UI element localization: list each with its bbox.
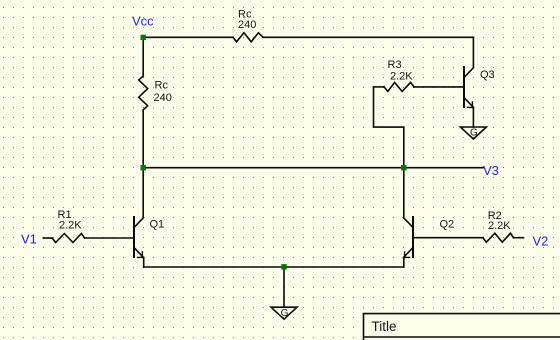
wire R2 right lead: [514, 237, 524, 239]
wire Vcc top left segment: [143, 36, 233, 38]
wire R3 to Q3 base: [414, 86, 464, 88]
svg-text:240: 240: [238, 19, 256, 31]
ground G bottom center: [271, 307, 297, 319]
svg-text:Q1: Q1: [150, 218, 165, 230]
resistor Rc (top) zigzag: [233, 33, 263, 42]
wire R3 left lead: [374, 86, 385, 88]
wire mid horizontal V3 net: [143, 167, 483, 169]
node junction left rail / V3 net: [141, 165, 146, 170]
title block: [364, 314, 560, 340]
resistor R1 zigzag: [52, 234, 85, 243]
svg-text:Q2: Q2: [440, 218, 455, 230]
node junction V3 net right: [401, 165, 406, 170]
transistor Q3: [464, 67, 474, 108]
svg-text:2.2K: 2.2K: [390, 71, 413, 83]
svg-text:2.2K: 2.2K: [488, 220, 511, 232]
svg-text:G: G: [281, 308, 289, 319]
svg-text:Rc: Rc: [155, 79, 169, 91]
wire Q2 emitter to bottom rail: [403, 258, 405, 268]
svg-text:V3: V3: [483, 163, 499, 178]
wire Q3 emitter to ground: [472, 108, 474, 128]
svg-text:240: 240: [154, 92, 172, 104]
wire Q3 collector drop: [472, 37, 474, 67]
resistor R2 zigzag: [483, 233, 514, 242]
wire bottom rail: [144, 266, 404, 268]
node junction Vcc: [141, 35, 146, 40]
resistor Rc (left vertical) zigzag: [139, 76, 148, 110]
svg-text:Title: Title: [372, 319, 397, 334]
svg-text:Q3: Q3: [480, 69, 495, 81]
svg-text:G: G: [470, 128, 478, 139]
resistor R3 zigzag: [384, 82, 414, 91]
svg-text:V2: V2: [533, 234, 549, 249]
svg-text:2.2K: 2.2K: [59, 220, 82, 232]
wire Q2 base to R2: [413, 237, 483, 239]
transistor Q1: [134, 217, 144, 258]
wire R1 to Q1 base: [85, 237, 134, 239]
svg-text:R3: R3: [388, 59, 402, 71]
wire Q1 emitter to bottom rail: [143, 258, 145, 268]
transistor Q2: [404, 217, 414, 258]
wire Vcc top right segment: [263, 36, 473, 38]
ground G under Q3: [460, 127, 486, 139]
wire node to Q2 collector: [403, 168, 405, 218]
wire Vcc node to resistor Rc vertical: [142, 37, 144, 76]
wire left rail through node to Q1 collector: [142, 110, 144, 218]
wire V1 lead: [43, 237, 52, 239]
svg-text:Vcc: Vcc: [132, 14, 154, 29]
wire bottom ground lead: [283, 267, 285, 307]
svg-text:V1: V1: [21, 232, 37, 247]
wire R3 drop to V3 net: [374, 87, 404, 168]
node junction bottom ground: [281, 264, 286, 269]
